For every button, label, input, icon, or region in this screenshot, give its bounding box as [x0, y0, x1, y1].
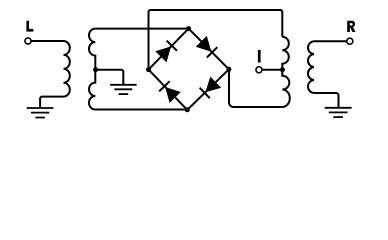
inductor T2 secondary — [308, 41, 314, 93]
ground G2 (middle) — [110, 85, 137, 94]
terminal I — [256, 67, 262, 73]
wire T1 primary to ground — [40, 97, 63, 108]
diode D1 — [155, 46, 171, 62]
wire top node to T1 secondary — [95, 28, 188, 30]
wire T2 secondary to ground — [314, 93, 339, 108]
diode ring: edge top-right — [189, 29, 229, 70]
diode D2 — [196, 36, 212, 52]
node right — [226, 67, 231, 72]
label L — [26, 21, 33, 32]
diode D4 — [165, 87, 181, 103]
inductor T2 primary — [282, 37, 290, 107]
label R — [347, 21, 355, 32]
inductor T1 secondary — [89, 29, 95, 110]
ground G1 (bottom left) — [27, 108, 54, 118]
node T2 center tap — [280, 67, 285, 72]
node T1 center tap — [93, 67, 98, 72]
ground G4 (bottom right) — [325, 108, 352, 117]
wire T1 secondary to bottom node — [95, 109, 187, 111]
terminal L — [25, 38, 31, 44]
diode ring: edge left-top — [149, 29, 189, 70]
wire R to T2 secondary — [314, 40, 346, 42]
inductor T1 primary — [64, 41, 70, 97]
label I — [258, 50, 261, 63]
node left — [146, 67, 151, 72]
terminal R — [347, 38, 353, 44]
wire T2 primary to right node — [229, 69, 282, 107]
diode ring: edge right-bottom — [187, 69, 229, 110]
node top — [186, 26, 191, 31]
wire I to tap — [263, 69, 283, 71]
node bottom — [185, 107, 190, 112]
diode ring: edge bottom-left — [149, 70, 188, 110]
diode D3 — [205, 77, 221, 93]
wire left node to top rail to T2 primary — [149, 10, 283, 70]
wire tap to middle ground — [96, 70, 124, 85]
wire L to T1 primary — [32, 40, 64, 42]
